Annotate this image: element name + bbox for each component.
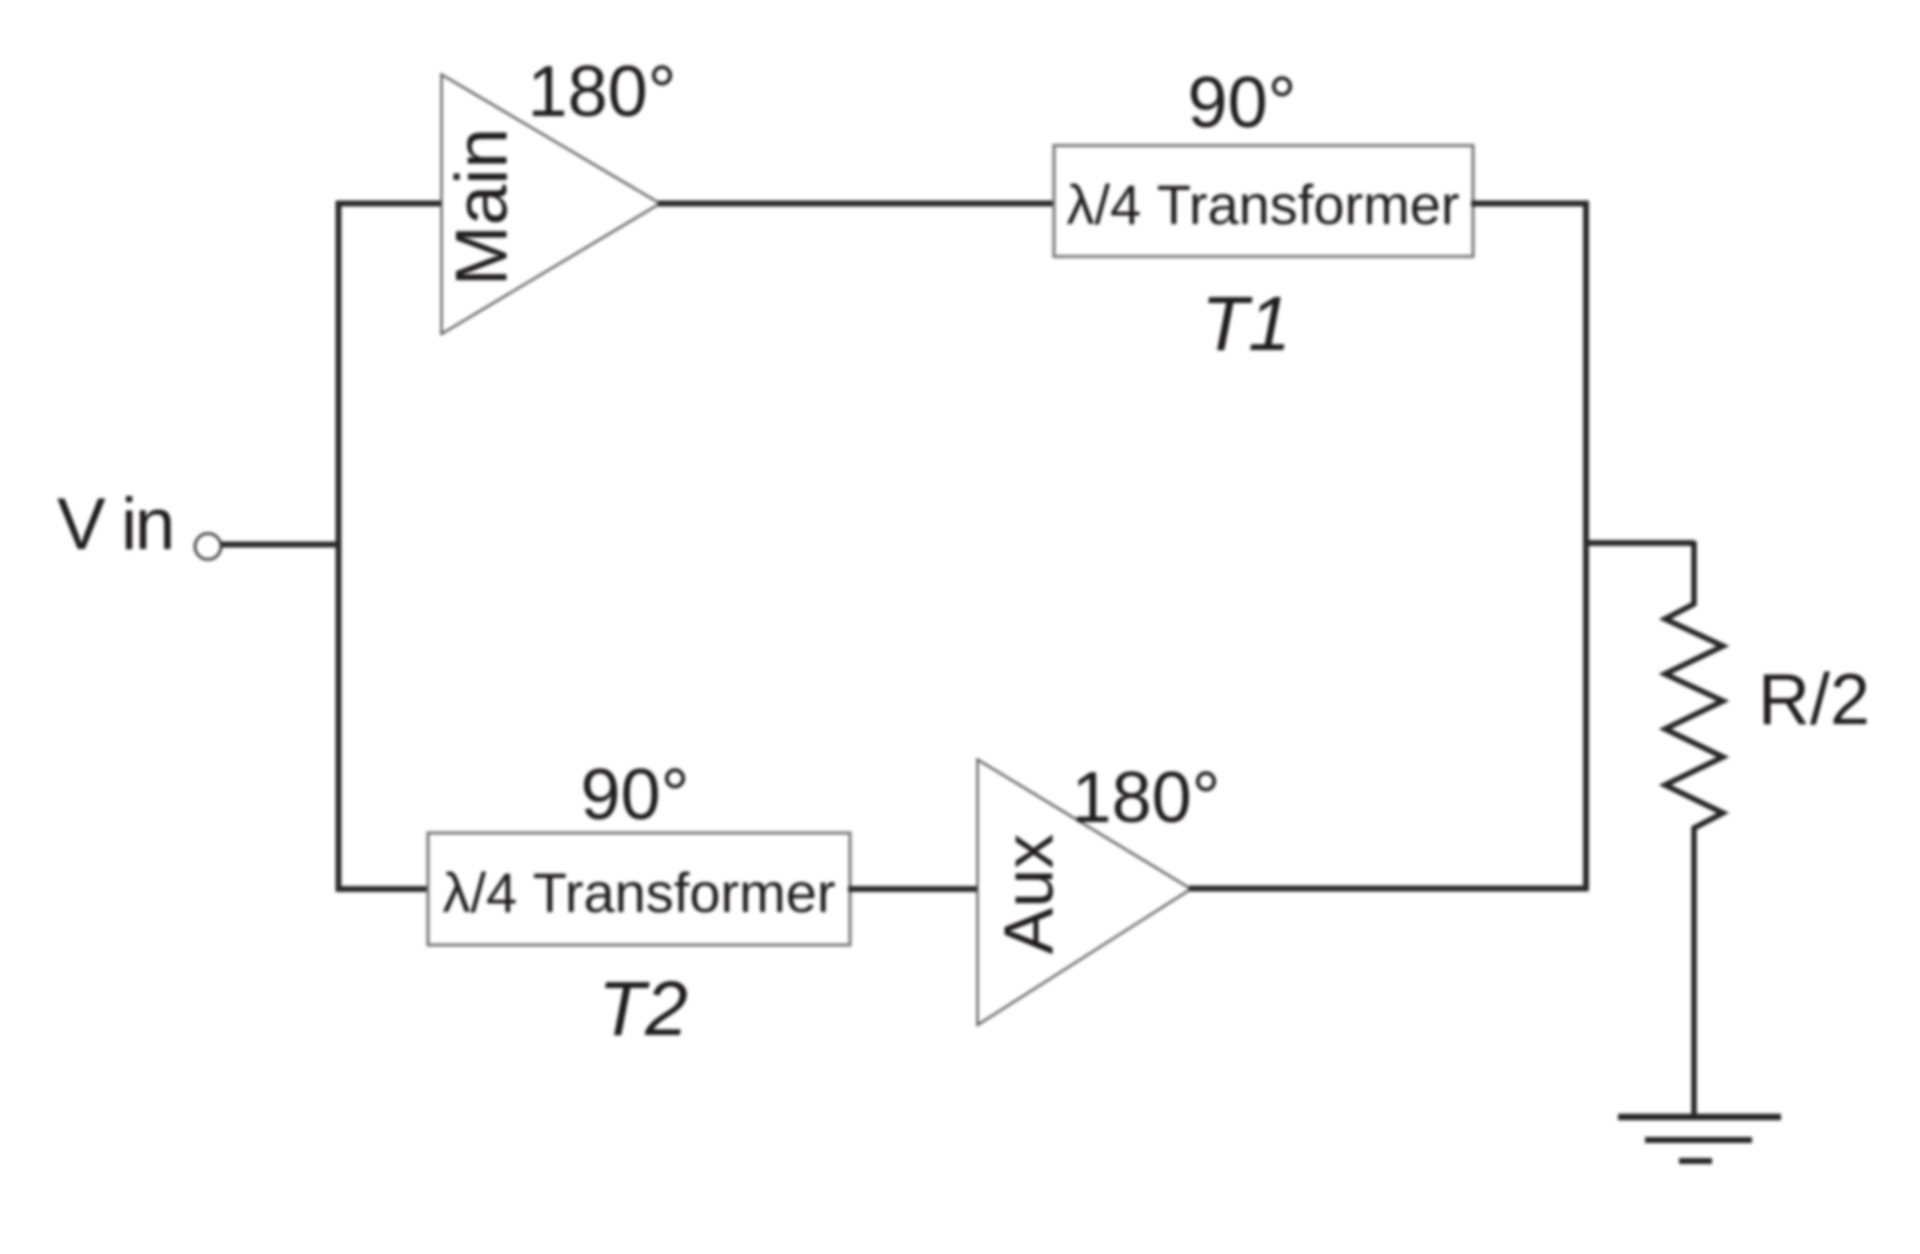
amplifier Aux (triangle): [978, 760, 1192, 1026]
wire right vertical bus (summing node): [1583, 201, 1589, 891]
resistor R/2 (zigzag with leads): [1665, 541, 1723, 1119]
svg-text:90°: 90°: [581, 755, 690, 835]
node Vin input terminal: [195, 534, 221, 560]
svg-text:180°: 180°: [528, 52, 677, 132]
wire T2 output to Aux amp input: [848, 886, 979, 892]
ground symbol: [1618, 1117, 1781, 1161]
wire Vin terminal to splitter node: [221, 542, 341, 548]
wire bottom rail: splitter to T2 input: [336, 886, 430, 892]
svg-text:λ/4 Transformer: λ/4 Transformer: [442, 861, 835, 924]
wire input splitter vertical bus: [336, 201, 342, 892]
wire T1 output to summing node: [1471, 201, 1589, 207]
wire top rail: splitter to Main amp input: [336, 201, 443, 207]
svg-text:V in: V in: [57, 484, 173, 565]
svg-text:R/2: R/2: [1758, 660, 1870, 740]
svg-text:λ/4 Transformer: λ/4 Transformer: [1066, 173, 1459, 236]
svg-text:Aux: Aux: [989, 834, 1067, 955]
wire Aux amp output to summing node: [1189, 886, 1589, 892]
svg-text:Main: Main: [441, 128, 522, 286]
svg-text:90°: 90°: [1188, 63, 1297, 143]
transformer T2 box: [428, 833, 850, 945]
transformer T1 box: [1054, 146, 1473, 257]
amplifier Main (triangle): [442, 75, 661, 335]
svg-text:T1: T1: [1201, 281, 1291, 367]
wire output node to load: [1584, 540, 1695, 546]
svg-text:T2: T2: [598, 966, 688, 1052]
wire Main amp output to T1: [658, 201, 1056, 207]
svg-text:180°: 180°: [1072, 758, 1221, 838]
